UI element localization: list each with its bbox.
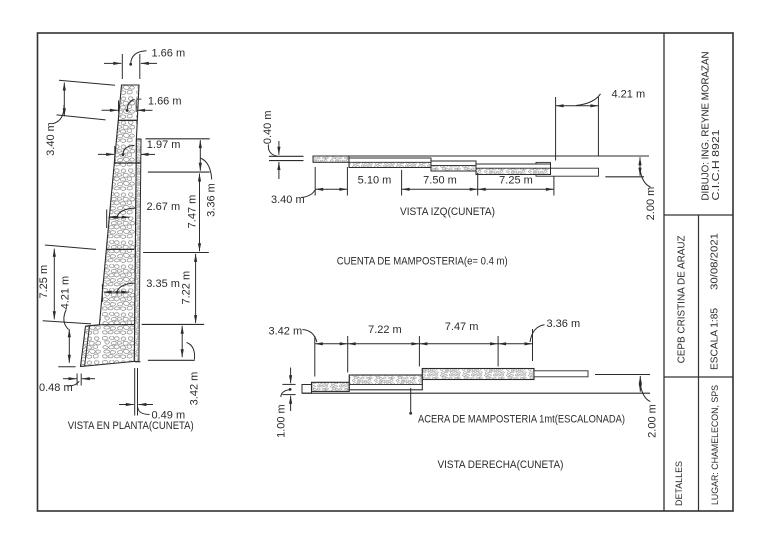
vista derecha dimension ticks — [315, 329, 533, 377]
title block row divider 1 — [664, 214, 733, 216]
title block row divider 2 — [664, 376, 733, 378]
drawing border frame — [38, 33, 734, 511]
vista izq tail outline with notch — [536, 162, 599, 176]
dimension 4.21 m (left) — [58, 276, 75, 367]
vista izq step bar 4 (hatched) — [476, 164, 551, 175]
svg-text:DIBUJO: ING. REYNE MORAZAN: DIBUJO: ING. REYNE MORAZAN — [701, 52, 712, 201]
svg-text:LUGAR: CHAMELECON, SPS: LUGAR: CHAMELECON, SPS — [710, 385, 721, 505]
svg-text:30/08/2021: 30/08/2021 — [710, 233, 721, 290]
dimension 1.66 m (top) — [104, 47, 185, 79]
dimension 3.36 m (right) — [199, 140, 218, 217]
dimension 7.47 m (right) — [187, 174, 202, 252]
svg-text:7.47 m: 7.47 m — [445, 321, 479, 333]
plan wall double line below column — [135, 368, 138, 416]
dimension 7.22 m (vista derecha) — [348, 324, 420, 345]
right extension line at 7.22/3.42 boundary — [142, 323, 205, 325]
vista derecha tail outline — [534, 371, 588, 377]
dimension 1.00 m (vista derecha left) — [276, 368, 296, 438]
svg-text:C.I.C.H 8921: C.I.C.H 8921 — [711, 129, 722, 201]
vista derecha right reference line — [595, 374, 650, 376]
column course joint 3 — [107, 248, 134, 250]
svg-text:CEPB CRISTINA DE ARAUZ: CEPB CRISTINA DE ARAUZ — [677, 235, 688, 363]
dimension 2.00 m (vista derecha right) — [639, 376, 659, 438]
svg-text:4.21 m: 4.21 m — [612, 89, 646, 101]
svg-text:7.47 m: 7.47 m — [187, 195, 199, 229]
dimension 3.42 m (right) — [181, 326, 201, 406]
vista izq step bar 3 (hatched) — [431, 161, 476, 171]
svg-text:1.00 m: 1.00 m — [276, 404, 288, 438]
dimension 1.97 m — [98, 139, 210, 164]
svg-text:7.50 m: 7.50 m — [423, 174, 457, 186]
right extension line at 7.47/7.22 boundary — [143, 252, 209, 254]
dimension 0.49 m — [119, 403, 185, 422]
svg-text:VISTA DERECHA(CUNETA): VISTA DERECHA(CUNETA) — [438, 459, 564, 471]
vista derecha step bar 3 (hatched) — [422, 369, 534, 380]
svg-text:3.35 m: 3.35 m — [146, 278, 180, 290]
vista izq dimension ticks — [315, 167, 554, 196]
title block column divider — [698, 215, 700, 511]
dimension 4.21 m (vista izq top right) — [556, 89, 646, 161]
dimension 3.42 m (vista derecha) — [269, 326, 348, 346]
dimension 2.00 m (vista izq right) — [605, 157, 657, 220]
svg-text:3.36 m: 3.36 m — [206, 183, 218, 217]
svg-text:7.22 m: 7.22 m — [368, 324, 402, 336]
right extension line at bottom 3.42 — [148, 359, 195, 361]
svg-text:5.10 m: 5.10 m — [358, 174, 392, 186]
svg-text:1.66 m: 1.66 m — [148, 96, 182, 108]
svg-text:2.00 m: 2.00 m — [645, 187, 657, 221]
svg-text:7.22 m: 7.22 m — [181, 271, 193, 305]
svg-text:7.25 m: 7.25 m — [38, 265, 50, 299]
svg-text:DETALLES: DETALLES — [674, 461, 685, 506]
svg-text:CUENTA DE MAMPOSTERIA(e= 0.4 m: CUENTA DE MAMPOSTERIA(e= 0.4 m) — [337, 256, 508, 268]
vista izq step bar 1 (hatched) — [313, 156, 349, 162]
vista izq step bar 2 (hatched) — [349, 158, 431, 168]
vista derecha step bar 2 (hatched) — [349, 375, 422, 390]
dimension 1.66 m (column top course) — [102, 96, 182, 113]
svg-text:2.67 m: 2.67 m — [147, 201, 181, 213]
svg-text:0.48 m: 0.48 m — [39, 382, 73, 394]
svg-text:1.97 m: 1.97 m — [147, 139, 181, 151]
svg-text:4.21 m: 4.21 m — [60, 276, 72, 310]
dimension 3.40 m (vista izq) — [271, 188, 347, 206]
column foot top joint — [86, 325, 135, 327]
svg-text:0.40 m: 0.40 m — [262, 110, 274, 144]
column foot left edge inner line — [85, 326, 90, 366]
vista derecha left stub — [302, 385, 312, 394]
dimension 0.40 m — [262, 110, 280, 179]
vista derecha step bar 1 (hatched) — [312, 382, 350, 391]
dimension 7.22 m (right) — [181, 254, 198, 323]
dimension 7.50 m (vista izq) — [402, 174, 478, 191]
right extension line at 7.47/3.36 boundary — [148, 171, 210, 173]
svg-text:3.40 m: 3.40 m — [271, 194, 305, 206]
vista derecha baseline — [302, 392, 650, 394]
svg-text:2.00 m: 2.00 m — [647, 404, 659, 438]
column course joint 2 — [115, 162, 141, 164]
svg-text:3.42 m: 3.42 m — [188, 372, 200, 406]
vista en planta column (hatched masonry wall) — [81, 85, 140, 367]
title block left divider — [663, 33, 665, 511]
vista izq ground line — [313, 155, 649, 157]
svg-text:ACERA DE MAMPOSTERIA 1mt(ESCAL: ACERA DE MAMPOSTERIA 1mt(ESCALONADA) — [418, 413, 625, 425]
dimension 7.47 m (vista derecha) — [419, 321, 498, 346]
svg-text:ESCALA 1:85: ESCALA 1:85 — [710, 308, 721, 370]
column course joint 1 — [118, 119, 137, 121]
dimension 7.25 m (left) — [38, 245, 96, 324]
svg-text:3.40 m: 3.40 m — [45, 122, 57, 156]
dimension 7.25 m (vista izq) — [478, 174, 554, 191]
svg-text:VISTA IZQ(CUNETA): VISTA IZQ(CUNETA) — [400, 206, 495, 218]
dimension 3.36 m (vista derecha) — [498, 318, 580, 346]
column right edge strip (double line) — [134, 139, 141, 362]
title block text DIBUJO ING. REYNE MORAZAN — [701, 52, 723, 201]
svg-text:1.66 m: 1.66 m — [152, 47, 186, 59]
svg-text:3.42 m: 3.42 m — [269, 326, 303, 338]
svg-text:7.25 m: 7.25 m — [499, 174, 533, 186]
svg-text:3.36 m: 3.36 m — [547, 318, 581, 330]
vista izq left stub lines — [269, 156, 304, 160]
dimension 3.40 m (left) — [45, 80, 115, 156]
dimension 2.67 m — [107, 201, 180, 228]
dimension 3.35 m — [102, 278, 180, 302]
leader ACERA DE MAMPOSTERIA — [409, 388, 625, 425]
dimension 0.48 m — [39, 374, 95, 394]
svg-text:VISTA EN PLANTA(CUNETA): VISTA EN PLANTA(CUNETA) — [68, 420, 194, 432]
